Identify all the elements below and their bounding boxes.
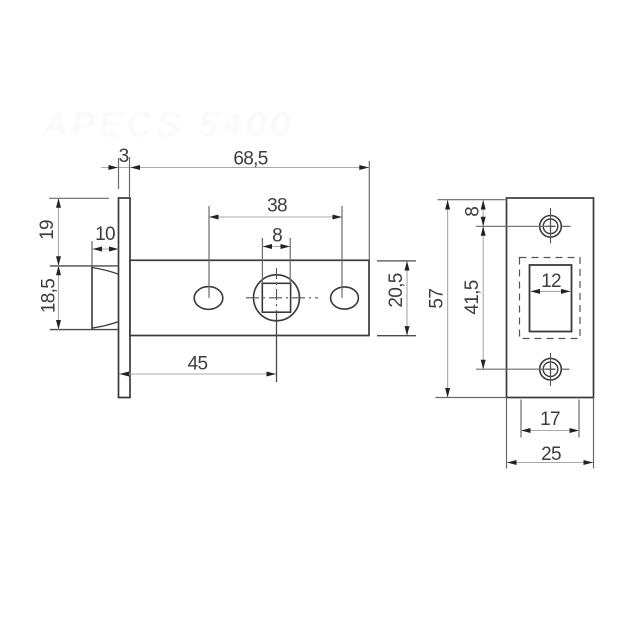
svg-text:38: 38 <box>267 196 287 217</box>
dim 57 <box>436 200 507 398</box>
dim 25 <box>507 460 593 465</box>
svg-text:8: 8 <box>463 207 484 217</box>
svg-text:12: 12 <box>541 271 561 292</box>
svg-text:3: 3 <box>119 146 129 167</box>
latch body <box>130 260 369 335</box>
svg-text:APECS 5400: APECS 5400 <box>42 106 294 144</box>
dim 12 <box>531 289 571 294</box>
label 57 <box>427 289 448 309</box>
svg-text:25: 25 <box>541 444 561 465</box>
label 17 <box>540 409 560 430</box>
ext lines 17 <box>521 400 579 438</box>
bottom screw hole <box>540 353 570 386</box>
dim 8 right <box>481 200 486 226</box>
label 18,5 <box>39 279 60 313</box>
dim 3 and 68,5 line <box>101 165 369 170</box>
svg-text:8: 8 <box>272 226 282 247</box>
label 10 <box>95 224 115 245</box>
dim 17 <box>521 428 579 433</box>
centerline vertical <box>276 268 278 382</box>
label 20,5 <box>386 273 407 307</box>
label 8 spindle <box>272 226 282 247</box>
label 19 <box>37 220 58 240</box>
latch opening <box>530 265 572 332</box>
svg-text:20,5: 20,5 <box>386 273 407 307</box>
svg-text:19: 19 <box>37 220 58 240</box>
left hole <box>194 287 223 310</box>
svg-text:41,5: 41,5 <box>462 280 483 314</box>
label 12 <box>541 271 561 292</box>
dim 18,5 <box>56 266 61 330</box>
dim 10 <box>92 241 119 266</box>
svg-text:17: 17 <box>540 409 560 430</box>
label 25 <box>541 444 561 465</box>
plate edge extensions below <box>507 398 594 469</box>
svg-text:68,5: 68,5 <box>233 149 267 170</box>
dashed opening outline <box>520 258 581 339</box>
label 45 <box>188 354 208 375</box>
dim 20,5 <box>377 261 416 336</box>
spindle square <box>262 283 290 312</box>
svg-text:18,5: 18,5 <box>39 279 60 313</box>
svg-text:57: 57 <box>427 289 448 309</box>
label 41,5 <box>462 280 483 314</box>
centerline horizontal <box>246 297 318 299</box>
strike plate <box>507 198 594 398</box>
latch bolt <box>50 266 119 330</box>
dim 19 <box>49 198 109 265</box>
label 38 <box>267 196 287 217</box>
spindle circle <box>254 275 300 321</box>
right hole <box>331 287 359 309</box>
label 68,5 <box>233 149 267 170</box>
faceplate <box>119 198 131 398</box>
watermark <box>42 106 294 144</box>
top screw hole <box>540 208 571 244</box>
dim 8 spindle <box>262 238 290 283</box>
ext line 68,5 right <box>368 161 370 260</box>
svg-text:45: 45 <box>188 354 208 375</box>
ext lines for 3 <box>119 157 130 198</box>
label 3 <box>119 146 129 167</box>
svg-text:10: 10 <box>95 224 115 245</box>
dim 45 <box>120 372 277 377</box>
label 8 right <box>463 207 484 217</box>
dim 38 <box>209 206 342 298</box>
dim 41,5 <box>476 226 551 369</box>
